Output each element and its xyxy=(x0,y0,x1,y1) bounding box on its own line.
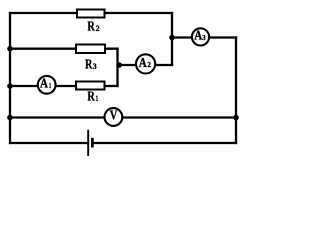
wire bottom bus left (to battery) xyxy=(10,142,87,144)
wire R1 right lead xyxy=(105,85,118,87)
voltmeter V xyxy=(105,108,123,126)
wire A1 row horizontal xyxy=(10,85,37,87)
wire parallel join vertical (R3 to R1) xyxy=(116,49,118,86)
label R3 xyxy=(85,57,97,72)
svg-text:R: R xyxy=(87,89,95,104)
wire right bus vertical xyxy=(235,38,237,144)
wire top bus horizontal xyxy=(10,12,172,14)
label R2 xyxy=(87,18,99,33)
svg-text:1: 1 xyxy=(96,94,99,103)
svg-text:A: A xyxy=(139,55,147,70)
wire bottom bus right (from battery) xyxy=(94,142,236,144)
wire A2 right lead xyxy=(155,64,172,66)
svg-text:2: 2 xyxy=(96,24,100,33)
node dot right branch / A3 row xyxy=(169,35,175,41)
svg-text:A: A xyxy=(40,76,48,91)
ammeter A1 xyxy=(38,76,56,94)
node dot right bus / V row xyxy=(233,115,239,121)
battery short plate (negative) xyxy=(91,138,94,148)
ammeter A2 xyxy=(136,54,155,73)
wire right branch vertical (top bus down to A2 row) xyxy=(171,13,173,65)
wire A3 right lead xyxy=(209,36,236,38)
svg-text:3: 3 xyxy=(202,33,206,42)
wire A1 to R1 lead xyxy=(56,85,76,87)
svg-text:1: 1 xyxy=(49,81,52,90)
wire A2 left lead xyxy=(118,64,137,66)
resistor R3 xyxy=(76,45,105,54)
resistor R2 xyxy=(77,10,105,18)
ammeter A3 xyxy=(192,28,209,46)
svg-text:V: V xyxy=(110,108,118,123)
label R1 xyxy=(87,89,98,104)
node dot left bus / R3 row xyxy=(7,46,13,52)
wire V row right xyxy=(123,116,236,118)
wire R3 row horizontal xyxy=(10,48,118,50)
battery long plate (positive) xyxy=(87,130,89,156)
svg-text:R: R xyxy=(87,18,95,33)
svg-text:2: 2 xyxy=(147,60,151,69)
wire V row left xyxy=(10,116,104,118)
resistor R1 xyxy=(76,82,105,90)
node dot left bus / A1 row xyxy=(7,83,13,89)
wire left bus vertical xyxy=(9,13,11,143)
svg-text:3: 3 xyxy=(93,62,97,71)
wire A3 left lead xyxy=(172,36,192,38)
node dot parallel join / A2 lead xyxy=(116,62,122,68)
node dot left bus / V row xyxy=(7,115,13,121)
svg-text:R: R xyxy=(85,57,93,72)
